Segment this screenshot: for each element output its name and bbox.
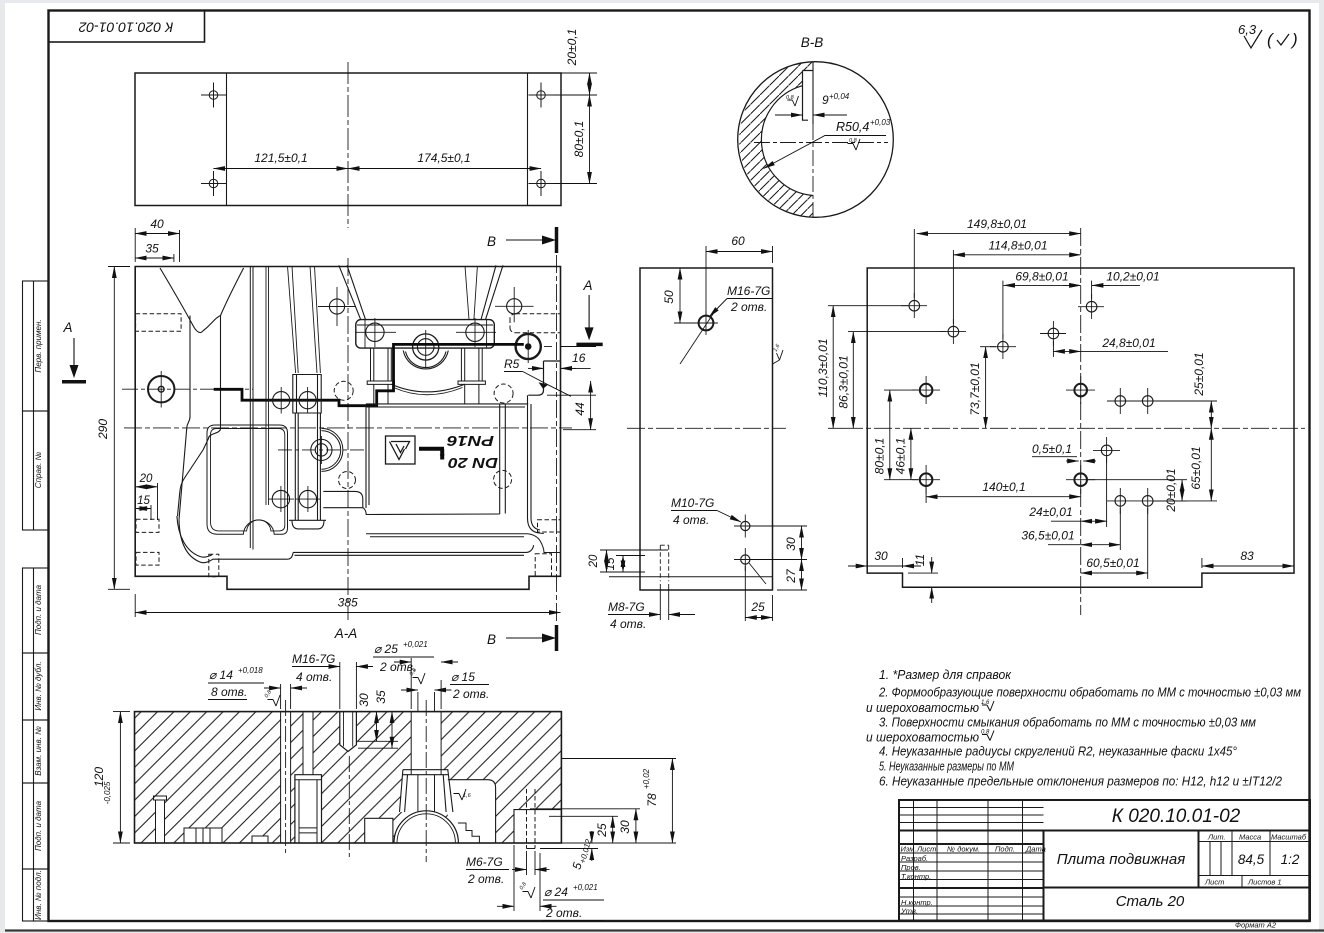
- svg-text:Инв. № дубл.: Инв. № дубл.: [34, 661, 43, 710]
- ejector boss: [311, 439, 332, 460]
- outline with feet: [135, 267, 560, 590]
- svg-text:0,5±0,1: 0,5±0,1: [1032, 442, 1072, 456]
- svg-text:16: 16: [572, 351, 586, 365]
- svg-text:+0,03: +0,03: [870, 118, 891, 127]
- svg-text:2 отв.: 2 отв.: [730, 300, 767, 314]
- svg-text:174,5±0,1: 174,5±0,1: [417, 151, 470, 165]
- 30 bottom-left: [848, 558, 921, 568]
- 25 / 65 right column dims: [1155, 401, 1217, 501]
- svg-text:84,5: 84,5: [1238, 852, 1265, 867]
- 73,7: [980, 347, 996, 429]
- svg-text:25: 25: [595, 823, 609, 838]
- svg-text:73,7±0,01: 73,7±0,01: [968, 362, 982, 415]
- svg-text:1. *Размер для справок: 1. *Размер для справок: [879, 667, 1012, 682]
- svg-text:1,6: 1,6: [981, 700, 990, 706]
- M6 stud: [527, 789, 536, 849]
- cavity rounded rect upper-left: [207, 425, 288, 534]
- svg-text:Плита подвижная: Плита подвижная: [1057, 851, 1186, 868]
- svg-text:4 отв.: 4 отв.: [296, 670, 332, 684]
- svg-text:B: B: [487, 632, 496, 647]
- dim 25 bottom: [745, 566, 772, 621]
- svg-text:Формат А2: Формат А2: [1235, 921, 1277, 930]
- arch under boss: [391, 384, 464, 392]
- dim 60: [706, 246, 773, 316]
- 60,5±0,01: [1081, 508, 1148, 579]
- svg-text:M16-7G: M16-7G: [292, 652, 335, 666]
- 80 / 46: [884, 390, 918, 480]
- svg-text:): ): [1290, 30, 1298, 49]
- upper-left crossed circle: [318, 287, 534, 326]
- center line horizontal: [754, 142, 888, 144]
- svg-text:+0,018: +0,018: [238, 666, 263, 675]
- svg-text:80±0,1: 80±0,1: [873, 438, 887, 475]
- svg-text:6,3: 6,3: [1238, 22, 1257, 37]
- dim 40/35 top: [135, 228, 179, 262]
- M8 dashed hole: [660, 545, 668, 581]
- svg-text:65±0,01: 65±0,01: [1189, 446, 1203, 489]
- horizontal centerline y=428: [124, 427, 572, 429]
- boss: [413, 334, 439, 360]
- dim 9+0.04: [775, 114, 847, 116]
- outer circle: [738, 62, 894, 218]
- svg-text:36,5±0,01: 36,5±0,01: [1021, 529, 1074, 543]
- svg-text:4 отв.: 4 отв.: [673, 513, 709, 527]
- cutout outlines: [154, 712, 562, 843]
- svg-text:110,3±0,01: 110,3±0,01: [816, 338, 830, 397]
- svg-text:25: 25: [750, 600, 765, 614]
- hatched plate: [135, 712, 562, 843]
- svg-text:⌀ 25: ⌀ 25: [374, 642, 398, 656]
- roughness marks in notes: [982, 701, 994, 741]
- section cut thick trace A-A: [214, 344, 524, 405]
- dim 5: [540, 831, 598, 861]
- 20±0,01: [1087, 480, 1187, 501]
- svg-text:+0,021: +0,021: [403, 640, 428, 649]
- dims 30 / 27 right: [750, 526, 807, 590]
- B-B vertical dash line: [556, 255, 558, 622]
- svg-text:15: 15: [137, 495, 150, 507]
- svg-text:69,8±0,01: 69,8±0,01: [1015, 270, 1068, 284]
- svg-text:4. Неуказанные радиусы скругл: 4. Неуказанные радиусы скруглений R2, не…: [879, 743, 1237, 758]
- 24,8 dim: [1053, 341, 1168, 357]
- svg-text:Разраб.: Разраб.: [901, 854, 928, 863]
- svg-text:Подп. и дата: Подп. и дата: [34, 584, 43, 635]
- slot feature: [803, 62, 814, 220]
- svg-text:15: 15: [605, 557, 617, 570]
- 30 / 35 depth dims: [358, 712, 398, 749]
- svg-text:60: 60: [731, 234, 745, 248]
- roughness small: [848, 139, 861, 150]
- svg-text:M6-7G: M6-7G: [466, 855, 503, 869]
- svg-text:20±0,1: 20±0,1: [565, 29, 579, 67]
- dim 290: [108, 267, 130, 590]
- svg-text:0,8: 0,8: [849, 138, 858, 144]
- marker A left: [62, 320, 86, 382]
- svg-text:M8-7G: M8-7G: [608, 600, 645, 614]
- R50,4 leader: [764, 136, 886, 169]
- plate outline on top: [135, 712, 562, 843]
- dim 78 right: [561, 759, 676, 844]
- svg-text:80±0,1: 80±0,1: [572, 121, 586, 158]
- svg-text:20±0,01: 20±0,01: [1164, 468, 1178, 512]
- svg-text:86,3±0,01: 86,3±0,01: [837, 355, 851, 408]
- svg-text:140±0,1: 140±0,1: [982, 480, 1025, 494]
- 140±0,1: [926, 487, 1081, 503]
- svg-text:Взам. инв. №: Взам. инв. №: [34, 726, 43, 776]
- svg-text:9: 9: [822, 93, 829, 107]
- svg-text:Пров.: Пров.: [901, 863, 921, 872]
- svg-text:⌀ 15: ⌀ 15: [451, 670, 475, 684]
- svg-text:R50,4: R50,4: [836, 120, 869, 134]
- svg-text:11: 11: [913, 554, 927, 566]
- svg-text:24,8±0,01: 24,8±0,01: [1101, 336, 1155, 350]
- svg-text:30: 30: [784, 537, 798, 551]
- svg-text:A-A: A-A: [334, 626, 358, 641]
- svg-text:и шероховатостью: и шероховатостью: [866, 729, 979, 744]
- svg-text:46±0,1: 46±0,1: [894, 438, 908, 475]
- dims 30 / 25 right: [530, 809, 640, 843]
- 1,6 roughness in bell: [454, 789, 467, 800]
- svg-text:Лист: Лист: [1204, 878, 1224, 887]
- svg-text:Т.контр.: Т.контр.: [901, 872, 931, 881]
- dim 16 right: [528, 347, 596, 374]
- svg-text:⌀ 14: ⌀ 14: [209, 668, 233, 682]
- 20 / 15 small dims: [600, 550, 668, 572]
- svg-text:3. Поверхности смыкания обраб: 3. Поверхности смыкания обработать по ММ…: [879, 715, 1256, 730]
- top bar with sprue bushing: [339, 265, 503, 404]
- svg-text:114,8±0,01: 114,8±0,01: [988, 239, 1047, 253]
- svg-text:8 отв.: 8 отв.: [211, 685, 247, 699]
- svg-text:30: 30: [618, 820, 632, 834]
- svg-text:2 отв.: 2 отв.: [452, 687, 489, 701]
- svg-text:44: 44: [573, 402, 587, 416]
- svg-text:B-B: B-B: [801, 35, 824, 50]
- svg-text:2 отв.: 2 отв.: [467, 872, 504, 886]
- svg-text:К 020.10.01-02: К 020.10.01-02: [1112, 806, 1241, 827]
- svg-text:№ докум.: № докум.: [947, 845, 980, 854]
- svg-text:-0,025: -0,025: [103, 781, 112, 804]
- long verticals left-center: [250, 266, 253, 550]
- svg-text:60,5±0,01: 60,5±0,01: [1086, 556, 1139, 570]
- svg-text:Дата: Дата: [1025, 845, 1046, 854]
- dim 120 left: [113, 712, 130, 843]
- svg-text:0,8: 0,8: [981, 730, 990, 736]
- center dash lines: [286, 700, 427, 862]
- svg-text:385: 385: [338, 596, 358, 610]
- svg-text:+0,02: +0,02: [642, 768, 651, 789]
- dashed hidden pockets left: [136, 314, 561, 577]
- 20 / 15 dims left edge: [135, 483, 157, 520]
- hatched shell crescent: [739, 62, 813, 217]
- crossed circles: [272, 490, 289, 507]
- svg-text:35: 35: [145, 242, 159, 256]
- dim 20 / 80 right: [554, 73, 598, 184]
- 11 step: [908, 557, 938, 603]
- vertical centerline: [347, 258, 349, 620]
- dim 385: [135, 594, 560, 617]
- svg-text:1:2: 1:2: [1281, 852, 1300, 867]
- roughness flag right edge: [773, 350, 784, 364]
- svg-text:149,8±0,01: 149,8±0,01: [967, 217, 1027, 231]
- svg-text:R5: R5: [504, 357, 520, 371]
- svg-text:M10-7G: M10-7G: [671, 496, 714, 510]
- svg-text:290: 290: [96, 419, 110, 440]
- M10 holes: [734, 515, 766, 585]
- marker A right: [576, 278, 602, 344]
- svg-text:Перв. примен.: Перв. примен.: [34, 319, 43, 372]
- svg-text:30: 30: [357, 693, 371, 707]
- logo square: [386, 436, 416, 464]
- svg-text:24±0,01: 24±0,01: [1028, 505, 1072, 519]
- holes small: [901, 293, 1161, 514]
- mirrored cast text: [446, 432, 498, 471]
- svg-text:10,2±0,01: 10,2±0,01: [1106, 270, 1159, 284]
- svg-text:Лит.: Лит.: [1207, 833, 1226, 842]
- svg-text:и шероховатостью: и шероховатостью: [866, 700, 979, 715]
- 4 guide holes: [201, 83, 554, 197]
- svg-text:Утв.: Утв.: [900, 907, 918, 916]
- svg-text:+0,04: +0,04: [829, 92, 850, 101]
- svg-text:DN 20: DN 20: [447, 454, 498, 471]
- svg-text:Подп.: Подп.: [995, 845, 1015, 854]
- tower and legs: [293, 375, 321, 414]
- svg-text:20: 20: [588, 554, 600, 568]
- svg-text:M16-7G: M16-7G: [727, 284, 770, 298]
- svg-text:К 020.10.01-02: К 020.10.01-02: [78, 19, 173, 35]
- svg-text:Листов 1: Листов 1: [1247, 878, 1282, 887]
- svg-text:0,8: 0,8: [786, 95, 795, 101]
- dim 121,5 / 174,5: [214, 168, 542, 170]
- svg-text:Справ. №: Справ. №: [34, 451, 43, 488]
- right locating circle (bold): [516, 330, 552, 363]
- svg-text:⌀ 24: ⌀ 24: [544, 885, 568, 899]
- left rotated dims: [828, 306, 946, 429]
- svg-text:Масса: Масса: [1239, 833, 1261, 842]
- right step / R5: [544, 360, 561, 362]
- svg-text:B: B: [487, 234, 496, 249]
- svg-text:6. Неуказанные предельные отк: 6. Неуказанные предельные отклонения раз…: [879, 774, 1283, 789]
- svg-text:25±0,01: 25±0,01: [1192, 352, 1206, 396]
- puller block + slant: [323, 491, 363, 507]
- svg-text:Лист: Лист: [916, 845, 936, 854]
- svg-text:40: 40: [150, 217, 164, 231]
- svg-text:Подп. и дата: Подп. и дата: [34, 800, 43, 851]
- thick cast mark: [419, 449, 444, 460]
- svg-text:Изм.: Изм.: [901, 845, 917, 854]
- svg-text:Инв. № подл.: Инв. № подл.: [34, 870, 43, 920]
- cavity block: [207, 266, 561, 550]
- dim 44 right: [547, 381, 596, 430]
- svg-text:4 отв.: 4 отв.: [610, 617, 646, 631]
- svg-text:27: 27: [784, 568, 798, 584]
- funnel sprue: [160, 268, 561, 563]
- hole M16: [680, 311, 718, 364]
- svg-text:2 отв.: 2 отв.: [545, 906, 582, 920]
- svg-text:A: A: [582, 278, 592, 293]
- 83: [1202, 558, 1294, 568]
- svg-text:PN16: PN16: [446, 432, 494, 449]
- upper crossed circles pair: [273, 392, 290, 409]
- svg-text:A: A: [62, 320, 72, 335]
- svg-text:Масштаб: Масштаб: [1271, 833, 1307, 842]
- svg-text:+0,021: +0,021: [573, 883, 598, 892]
- dim 50: [674, 268, 698, 323]
- upper diagonals: [339, 265, 366, 319]
- svg-text:Сталь 20: Сталь 20: [1116, 893, 1185, 910]
- left big bore: [148, 371, 174, 408]
- svg-text:1,6: 1,6: [463, 793, 472, 799]
- white cutouts: [156, 705, 562, 843]
- svg-text:20: 20: [139, 473, 153, 485]
- centerline: [627, 427, 786, 429]
- svg-text:2. Формообразующие поверхност: 2. Формообразующие поверхности обработат…: [878, 685, 1301, 700]
- svg-text:30: 30: [874, 549, 888, 563]
- svg-text:78: 78: [645, 793, 659, 807]
- svg-text:5. Неуказанные размеры по ММ: 5. Неуказанные размеры по ММ: [879, 758, 1014, 773]
- top dims: [914, 229, 1140, 339]
- svg-text:83: 83: [1240, 549, 1254, 563]
- svg-text:121,5±0,1: 121,5±0,1: [254, 151, 307, 165]
- left bore centerline: [122, 388, 253, 390]
- 24±0,01 / 36,5±0,01: [1048, 457, 1120, 550]
- legs below bar: [371, 348, 392, 381]
- svg-text:50: 50: [662, 290, 676, 304]
- svg-text:35: 35: [374, 690, 388, 704]
